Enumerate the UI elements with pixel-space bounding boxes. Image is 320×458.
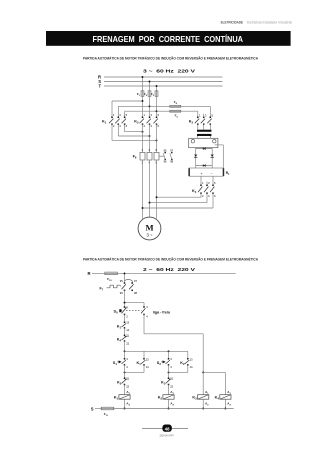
transformer T1 secondary xyxy=(197,134,211,138)
wire S1 to K2 interlock xyxy=(124,365,126,378)
wire DC+ to K4 xyxy=(200,176,202,185)
svg-text:22: 22 xyxy=(170,384,173,388)
wire bridge right xyxy=(211,148,213,155)
wire K2 output 1 xyxy=(142,124,144,152)
wire phase S drop xyxy=(149,81,151,91)
svg-text:M: M xyxy=(145,222,153,232)
wire F4 to K3 xyxy=(181,106,211,117)
bus line R xyxy=(98,75,223,80)
wire tap phase R to K1 xyxy=(112,100,143,117)
diode D1 top xyxy=(196,147,213,150)
subtitle lower diagram xyxy=(83,256,259,261)
svg-text:14: 14 xyxy=(126,328,129,332)
svg-text:3 ~: 3 ~ xyxy=(147,233,153,238)
svg-text:22: 22 xyxy=(126,341,129,345)
wire bottom rail xyxy=(114,408,234,410)
svg-text:+: + xyxy=(201,172,203,176)
contactor K3 contacts xyxy=(189,113,214,125)
svg-text:T: T xyxy=(98,84,101,89)
wire K1 output crossover 2 xyxy=(118,124,150,137)
svg-text:R: R xyxy=(87,271,90,276)
diode D2 left xyxy=(194,155,197,166)
svg-text:98: 98 xyxy=(134,291,137,295)
wire K1 output crossover 3 xyxy=(112,124,157,141)
svg-text:S: S xyxy=(91,406,94,411)
fuse F10 xyxy=(105,272,118,282)
svg-text:96: 96 xyxy=(120,291,123,295)
wire bridge left xyxy=(195,148,197,155)
wire K4 to motor line V xyxy=(149,193,207,203)
fuse F4 xyxy=(150,100,181,107)
coil K2 xyxy=(158,385,175,410)
svg-text:FRENAGEM POR CORRENTE CONTÍNUA: FRENAGEM POR CORRENTE CONTÍNUA xyxy=(93,34,244,44)
label 3~ 60Hz 220V upper xyxy=(143,68,196,74)
diode D3 right xyxy=(211,155,214,166)
svg-text:13: 13 xyxy=(190,358,193,362)
fuse F3 xyxy=(151,91,158,97)
svg-text:48: 48 xyxy=(165,426,170,431)
wire S2 to K1 interlock xyxy=(168,365,170,378)
pushbutton S0 NC xyxy=(114,305,129,318)
wire K4 middle stub xyxy=(206,182,208,186)
svg-text:2 ~ 60 Hz 220 V: 2 ~ 60 Hz 220 V xyxy=(143,267,196,273)
contact K1 seal 13-14 xyxy=(124,351,150,373)
bus line S xyxy=(98,79,222,84)
fuse F1 xyxy=(137,91,144,97)
wire F7 to S0 xyxy=(124,290,126,307)
mechanical link S0 brake xyxy=(126,310,142,312)
svg-text:SENAI-PR: SENAI-PR xyxy=(160,434,175,438)
wire motor line U xyxy=(142,160,144,219)
contact K2 seal 13-14 xyxy=(168,351,193,373)
fuse F2 xyxy=(144,91,151,97)
svg-text:95: 95 xyxy=(120,279,123,283)
svg-text:21: 21 xyxy=(170,377,173,381)
svg-text:PARTIDA AUTOMÁTICA DE MOTOR TR: PARTIDA AUTOMÁTICA DE MOTOR TRIFÁSICO DE… xyxy=(83,55,259,60)
pushbutton S2 xyxy=(157,351,172,369)
contactor K2 main contacts xyxy=(134,113,159,128)
svg-text:PARTIDA AUTOMÁTICA DE MOTOR TR: PARTIDA AUTOMÁTICA DE MOTOR TRIFÁSICO DE… xyxy=(83,256,259,261)
svg-text:21: 21 xyxy=(126,334,129,338)
wire branch to brake contact xyxy=(124,302,144,307)
wire brake branch split xyxy=(202,371,225,373)
overload aux contact F7 97-98 xyxy=(125,279,138,295)
subtitle upper diagram xyxy=(83,55,259,60)
contact K1 interlock 21-22 NC xyxy=(161,377,174,389)
wire K4 to motor line U xyxy=(142,193,213,209)
wire tap phase S to K1 and F4 xyxy=(118,105,150,117)
svg-text:97: 97 xyxy=(134,279,137,283)
control bottom rail S xyxy=(91,406,101,411)
svg-text:ELETRICIDADE: ELETRICIDADE xyxy=(221,20,244,24)
wire K4 to motor line W xyxy=(156,193,201,198)
wire K3 middle stub xyxy=(203,114,205,118)
wire K1 to K4 contact xyxy=(124,328,126,336)
wire motor line W xyxy=(156,160,158,219)
page header text xyxy=(221,20,293,24)
control top rail R xyxy=(87,271,104,276)
wire rail drop to F7 xyxy=(124,272,126,283)
wire top rail to right xyxy=(117,272,235,274)
svg-text:13: 13 xyxy=(146,358,149,362)
diode D4 bottom xyxy=(196,164,213,167)
wire K2 output 2 xyxy=(149,124,151,152)
footer rule and page badge xyxy=(142,425,188,432)
transformer T1 primary xyxy=(197,124,211,132)
wire F5 to K3 xyxy=(181,111,198,117)
wire bridge to DC box xyxy=(196,166,213,169)
wire fuse F1 to K2 xyxy=(142,96,144,117)
wire phase T drop xyxy=(156,85,158,90)
overload F6 aux contacts 95-96 97-98 xyxy=(159,148,173,163)
overload relay contact F7 95-96 xyxy=(100,279,126,295)
wire K1 output crossover 1 xyxy=(125,124,144,132)
wire K4 contact to node xyxy=(124,341,126,351)
svg-text:21: 21 xyxy=(126,377,129,381)
wire K2 output 3 xyxy=(156,124,158,152)
svg-text:14: 14 xyxy=(146,365,149,369)
svg-text:3 ~ 60 Hz 220 V: 3 ~ 60 Hz 220 V xyxy=(143,68,196,74)
wire fuse F3 to K2 xyxy=(156,96,158,117)
wire node line rung1 to rung2 xyxy=(124,350,188,352)
svg-text:−: − xyxy=(210,172,212,176)
wire brake contact to K3 K4 rungs xyxy=(144,314,203,372)
wire DC- to K4 xyxy=(212,176,214,185)
contact K4 21-22 NC xyxy=(117,334,130,346)
wire phase R drop xyxy=(142,76,144,90)
contact K1 13-14 xyxy=(117,321,130,333)
coil K1 xyxy=(114,385,131,410)
bus line T xyxy=(98,84,222,89)
DC output block with resistor R1 xyxy=(188,168,230,176)
wire S0 to K1 contact xyxy=(124,314,126,322)
wire motor line V xyxy=(149,160,151,217)
overload relay F6 xyxy=(133,148,159,164)
coil K4 xyxy=(215,372,232,409)
svg-text:22: 22 xyxy=(126,384,129,388)
contactor K1 main contacts xyxy=(102,113,128,128)
fuse F5 xyxy=(157,110,181,118)
pushbutton S1 xyxy=(113,351,128,369)
contact K2 interlock 21-22 NC xyxy=(117,377,130,389)
svg-text:Eletricista Instalador Industr: Eletricista Instalador Industrial xyxy=(247,20,292,24)
pushbutton brake NO contact xyxy=(141,305,148,318)
svg-text:14: 14 xyxy=(190,365,193,369)
title bar xyxy=(46,31,291,46)
wire tap phase T to K1 and F5 xyxy=(125,110,158,117)
footer SENAI-PR xyxy=(160,434,175,438)
fuse F11 xyxy=(101,407,114,417)
rectifier bridge plate xyxy=(189,138,218,147)
coil K3 xyxy=(192,372,209,409)
contactor K4 contacts xyxy=(192,181,216,198)
label 2~ 60Hz 220V lower xyxy=(143,267,196,273)
motor M 3~ xyxy=(138,217,161,240)
wire plate to resistor branch xyxy=(215,145,224,168)
svg-text:liga - freio: liga - freio xyxy=(153,310,171,314)
label liga freio xyxy=(153,310,171,314)
wire fuse F2 to K2 xyxy=(149,96,151,117)
svg-text:13: 13 xyxy=(126,321,129,325)
